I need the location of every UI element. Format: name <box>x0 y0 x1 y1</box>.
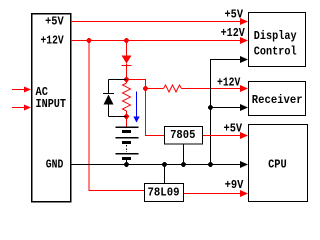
node battery-GND junction <box>124 162 129 167</box>
wire node B to resistor R2 <box>146 88 164 90</box>
node junction on +12V rail (x=126.5) <box>124 38 129 43</box>
regulator U2 78L09 box <box>145 184 184 202</box>
resistor R2 (horizontal) <box>164 85 182 92</box>
svg-text:78L09: 78L09 <box>148 186 180 200</box>
Display Control box <box>249 13 306 67</box>
AC input arrow 1 <box>12 87 31 93</box>
wire resistor R2 to Receiver <box>182 85 249 92</box>
wire GND riser to Display Control <box>211 56 249 165</box>
wire node C to battery <box>126 117 128 127</box>
CPU box <box>249 125 308 202</box>
wire +5V rail to Display Control <box>71 18 248 25</box>
Receiver box <box>249 82 306 116</box>
node B junction <box>143 86 148 91</box>
svg-text:+12V: +12V <box>41 34 65 48</box>
wire +12V branch down to diode D1 <box>126 41 128 56</box>
current direction arrow (blue) <box>133 92 139 123</box>
node 78L09-GND junction <box>162 162 167 167</box>
svg-text:+5V: +5V <box>45 15 64 29</box>
node C junction <box>124 114 129 119</box>
wire 78L09 output +9V to CPU <box>184 190 248 197</box>
svg-text:Control: Control <box>254 45 297 59</box>
svg-text:+5V: +5V <box>225 8 244 22</box>
wire node A to node B <box>127 80 146 89</box>
wire 78L09 ground pin <box>164 165 166 184</box>
wire 7805 output +5V to CPU <box>203 132 248 139</box>
node junction on +12V rail (x=89) <box>87 38 92 43</box>
regulator U1 7805 box <box>165 127 203 145</box>
node GND-riser junction <box>208 162 213 167</box>
wire node B down to 7805 input <box>146 89 165 136</box>
svg-text:+5V: +5V <box>224 122 243 136</box>
diode D1 (red, pointing down) <box>122 56 132 80</box>
resistor R1 (vertical, from node A) <box>123 80 131 117</box>
node GND riser to Receiver junction <box>208 105 213 110</box>
wire GND riser to Receiver <box>211 104 249 111</box>
diode D2 (black, pointing up) <box>103 80 127 117</box>
svg-text:7805: 7805 <box>170 128 195 142</box>
svg-text:CPU: CPU <box>268 158 287 172</box>
wire 7805 ground pin <box>183 144 185 165</box>
svg-text:+12V: +12V <box>221 26 246 40</box>
AC input arrow 2 <box>12 105 31 111</box>
wire GND bus to CPU <box>71 161 248 168</box>
node A junction <box>124 77 129 82</box>
svg-text:+9V: +9V <box>225 178 244 192</box>
svg-text:INPUT: INPUT <box>36 97 67 111</box>
svg-text:+12V: +12V <box>217 76 241 90</box>
svg-text:Display: Display <box>254 29 297 43</box>
wire +12V branch down to 78L09 input <box>89 41 144 191</box>
battery BT1 <box>116 127 139 165</box>
power supply box <box>32 14 71 202</box>
wire +12V rail to Display Control <box>71 37 248 44</box>
svg-text:Receiver: Receiver <box>252 93 303 107</box>
svg-text:GND: GND <box>46 157 64 171</box>
node 7805-GND junction <box>181 162 186 167</box>
